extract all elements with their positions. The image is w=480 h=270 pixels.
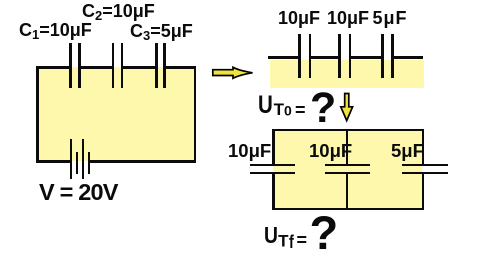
series bar yellow fill [270, 60, 424, 88]
wire bottom edge segment 1 [36, 160, 71, 163]
label C3=5uF [130, 22, 193, 42]
battery V plate long 1 [70, 139, 72, 179]
wire series segment 2 [310, 56, 340, 59]
battery V plate short 2 [88, 152, 90, 174]
wire parallel left edge upper [272, 129, 275, 166]
wire series segment 4 [393, 56, 423, 59]
block arrow down [337, 90, 357, 125]
wire series segment 1 [268, 56, 300, 59]
capacitor plate series 2a [338, 34, 341, 78]
label 5uF series [373, 9, 408, 27]
label 5uF parallel [391, 142, 424, 161]
wire bottom edge segment 2 [89, 160, 196, 163]
label 10uF parallel 2 [309, 142, 352, 161]
label UTf [264, 224, 294, 251]
wire parallel top edge [272, 129, 424, 132]
label C2=10uF [82, 2, 155, 22]
wire parallel right edge upper [422, 129, 425, 166]
equals sign UT0 [295, 101, 306, 119]
capacitor C3 plate 2 [163, 43, 166, 88]
capacitor C1 plate 1 [69, 43, 72, 88]
block arrow right [208, 62, 258, 82]
capacitor plate series 2b [349, 34, 352, 78]
label 10uF series 1 [278, 9, 320, 27]
battery V plate short 1 [76, 152, 78, 174]
parallel circuit yellow fill [273, 129, 422, 209]
label V = 20V [39, 181, 118, 205]
capacitor parallel 3 plate bottom [402, 172, 448, 175]
label UT0 [258, 93, 292, 118]
capacitor C1 plate 2 [78, 43, 81, 88]
capacitor plate series 3b [391, 34, 394, 78]
wire parallel right edge lower [422, 173, 425, 210]
question mark UTf [310, 209, 339, 256]
capacitor plate series 3a [381, 34, 384, 78]
wire parallel divider lower [346, 173, 349, 210]
wire series segment 3 [350, 56, 383, 59]
capacitor C2 plate 2 [121, 43, 124, 88]
label 10uF series 2 [327, 9, 369, 27]
left circuit yellow fill [37, 67, 195, 161]
capacitor plate series 1b [309, 34, 312, 78]
capacitor parallel 2 plate top [325, 164, 371, 167]
capacitor plate series 1a [298, 34, 301, 78]
wire parallel bottom edge [272, 208, 424, 211]
battery V plate long 2 [82, 139, 84, 179]
wire parallel left edge lower [272, 173, 275, 210]
capacitor C3 plate 1 [155, 43, 158, 88]
wire top edge segment 3 [122, 66, 156, 69]
equals sign UTf [297, 231, 308, 249]
capacitor parallel 1 plate top [250, 164, 295, 167]
wire left edge [36, 66, 39, 163]
capacitor parallel 3 plate top [402, 164, 448, 167]
label C1=10uF [19, 21, 92, 41]
wire right edge [194, 66, 197, 163]
wire top edge segment 2 [80, 66, 113, 69]
capacitor parallel 1 plate bottom [250, 172, 295, 175]
wire top edge segment 4 [165, 66, 196, 69]
capacitor parallel 2 plate bottom [325, 172, 371, 175]
label 10uF parallel 1 [228, 142, 271, 161]
question mark UT0 [310, 87, 336, 130]
wire parallel divider upper [346, 129, 349, 166]
wire top edge segment 1 [36, 66, 71, 69]
capacitor C2 plate 1 [112, 43, 115, 88]
